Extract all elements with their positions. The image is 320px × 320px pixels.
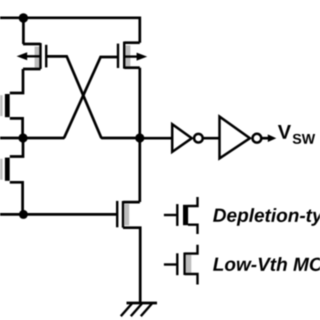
- wire node A horizontal: [0, 137, 64, 140]
- wire output with arrow: [261, 137, 269, 140]
- inverter I2 output bubble: [253, 134, 262, 143]
- inverter I1 output bubble: [194, 134, 203, 143]
- legend low-Vth gate line: [176, 253, 178, 275]
- transistor M3 right PMOS (low-Vth) top arm: [124, 41, 140, 44]
- transistor M3 bottom arm: [124, 66, 140, 69]
- ground: [127, 302, 158, 305]
- node top junction dot: [19, 13, 28, 22]
- node B junction dot: [19, 210, 28, 219]
- transistor M2 channel spine: [122, 201, 124, 228]
- wire cross-couple M1 gate to right node: [46, 56, 140, 138]
- legend symbol depletion-type: gate stub: [164, 214, 177, 216]
- transistor Q1 depletion black channel bar: [5, 94, 10, 117]
- legend low-Vth arms: [185, 245, 198, 285]
- legend depletion black bar: [183, 205, 188, 225]
- wire M1 drain down to Q1: [10, 69, 23, 93]
- svg-text:V: V: [278, 122, 292, 144]
- transistor M3 gray channel bar: [125, 45, 130, 66]
- transistor M1 bottom arm: [23, 68, 41, 71]
- node A junction dot: [18, 133, 27, 142]
- legend depletion gate line: [176, 204, 178, 226]
- transistor Q1 gate line (cut at edge): [0, 95, 3, 116]
- transistor M2 NMOS (low-Vth) gate line: [116, 201, 118, 227]
- node right junction dot: [135, 133, 144, 142]
- transistor M1 body arrow: [22, 55, 41, 57]
- legend depletion arms: [188, 197, 198, 234]
- wire right rail M3 drain to M2 drain: [138, 68, 141, 202]
- legend symbol low-Vth: gate stub: [164, 263, 177, 265]
- transistor Q2 bottom arm: [10, 182, 23, 214]
- inverter I2: [220, 117, 250, 159]
- wire node to inverter chain: [140, 137, 172, 140]
- transistor M1 gate line: [45, 45, 47, 68]
- svg-text:Depletion-type: Depletion-type: [213, 206, 320, 227]
- svg-text:SW: SW: [292, 132, 315, 148]
- transistor M2 bottom arm: [123, 228, 140, 303]
- inverter I1: [172, 124, 192, 152]
- transistor Q2 depletion black channel bar: [5, 158, 10, 181]
- wire cross-couple M3 gate to node A: [63, 57, 118, 138]
- transistor M1 channel spine: [39, 43, 41, 69]
- wire I1 to I2: [203, 137, 220, 140]
- svg-text:Low-Vth MOS: Low-Vth MOS: [213, 255, 320, 276]
- legend low-Vth gray bar: [186, 255, 192, 273]
- legend low-Vth channel spine: [183, 253, 185, 276]
- transistor M3 channel spine: [123, 42, 125, 69]
- transistor Q2 gate line (cut at edge): [0, 159, 3, 180]
- wire node A down to Q2: [10, 138, 23, 157]
- transistor M1 left PMOS (low-Vth) top arm: [23, 43, 41, 46]
- transistor Q1 bottom arm: [10, 118, 23, 138]
- wire node B to M2 gate: [0, 213, 117, 216]
- transistor M2 top arm: [123, 201, 140, 204]
- transistor M2 gray channel bar: [124, 204, 129, 225]
- transistor M3 gate line: [117, 44, 119, 68]
- wire left rail from top dot to M1: [22, 18, 25, 44]
- wire top rail: [0, 18, 140, 43]
- transistor M1 gray channel bar: [35, 47, 40, 68]
- transistor M3 body arrow: [124, 55, 139, 57]
